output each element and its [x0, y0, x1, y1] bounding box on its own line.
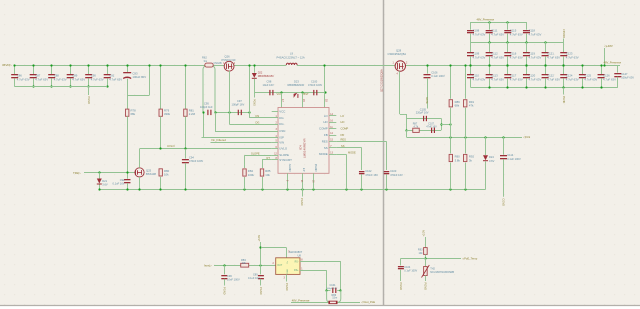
svg-text:C101: C101: [330, 284, 337, 287]
svg-text:4.7uF 63V: 4.7uF 63V: [35, 77, 48, 81]
svg-text:Q26: Q26: [225, 54, 231, 58]
svg-text:3m: 3m: [204, 59, 208, 63]
svg-text:220pF 16V: 220pF 16V: [416, 111, 429, 115]
svg-text:P4SAC0.223NLT ~ 12A: P4SAC0.223NLT ~ 12A: [277, 55, 305, 59]
svg-text:C100: C100: [311, 79, 318, 83]
svg-text:RS-: RS-: [295, 261, 299, 263]
svg-text:48V_Presense: 48V_Presense: [604, 60, 622, 64]
svg-text:C106: C106: [431, 70, 438, 74]
svg-text:10nF 100V: 10nF 100V: [227, 278, 240, 282]
svg-text:10uF 16V: 10uF 16V: [263, 83, 275, 87]
diode D23 RB068MM100: [294, 93, 298, 98]
wire Q28 gate: [399, 71, 401, 114]
svg-text:ISP: ISP: [279, 136, 284, 140]
wire main ground bus: [99, 189, 485, 191]
svg-text:DG: DG: [279, 116, 284, 120]
svg-text:3.6V: 3.6V: [102, 183, 108, 187]
wire sense run: [215, 112, 249, 114]
svg-text:RB068MM100: RB068MM100: [288, 83, 305, 87]
svg-text:4.7uF 63V: 4.7uF 63V: [566, 77, 579, 81]
wire +3.3V down: [260, 242, 262, 265]
svg-text:SLOPE: SLOPE: [251, 151, 260, 155]
zener D24 3.6V: [485, 137, 487, 155]
resistor R85 10k: [260, 169, 263, 176]
transistor Q25 BSS138: [135, 168, 144, 177]
wire DS branch: [249, 65, 251, 112]
svg-text:470nF 16V: 470nF 16V: [365, 173, 378, 177]
wire Q26 source down: [229, 71, 231, 124]
svg-text:CGND: CGND: [502, 198, 506, 206]
wire Isns to OUT: [214, 265, 276, 267]
svg-text:47k: 47k: [469, 104, 474, 108]
svg-text:100pF 16V: 100pF 16V: [232, 103, 245, 107]
wire RES to C103: [336, 141, 386, 143]
svg-text:C95: C95: [204, 102, 209, 106]
wire UVLO net: [140, 148, 272, 150]
svg-text:L9: L9: [290, 52, 293, 56]
svg-text:FB: FB: [341, 133, 345, 137]
svg-text:4.7uF 63V: 4.7uF 63V: [473, 55, 486, 59]
svg-text:Q27 CSD19532Q5A: Q27 CSD19532Q5A: [381, 69, 384, 92]
svg-text:LO: LO: [341, 114, 344, 118]
wire U8 GND pin: [286, 274, 288, 281]
wire Vin_Filtered net: [211, 142, 272, 144]
svg-text:SS: SS: [324, 146, 328, 150]
svg-text:VIN: VIN: [279, 140, 284, 144]
capacitor C113: [489, 65, 491, 74]
wire V+ branch: [261, 247, 287, 249]
wire 36VD input bus (left of L9): [14, 65, 286, 67]
svg-text:NCU18XH103F6SRB: NCU18XH103F6SRB: [430, 271, 454, 274]
capacitor C121: [545, 42, 547, 52]
svg-text:10k: 10k: [265, 173, 270, 177]
svg-text:PGND: PGND: [253, 99, 256, 106]
wire RT branch: [262, 159, 272, 161]
capacitor C99 0.1uF 16V: [260, 265, 262, 274]
wire PoE_Temp: [425, 258, 461, 260]
svg-text:Q28: Q28: [396, 49, 402, 53]
svg-text:+3.3V: +3.3V: [423, 230, 426, 237]
capacitor C106 0.1uF 100V: [427, 65, 429, 74]
svg-text:C98: C98: [267, 79, 272, 83]
resistor R84 100k: [243, 169, 246, 176]
svg-text:◁+48V: ◁+48V: [604, 44, 613, 48]
ground PGND under EP: [302, 190, 304, 197]
svg-text:470nF 100V: 470nF 100V: [189, 159, 203, 163]
svg-text:C92: C92: [120, 178, 125, 182]
svg-text:4.7uF 63V: 4.7uF 63V: [491, 55, 504, 59]
wire +48V stub: [604, 48, 606, 65]
svg-text:C97: C97: [237, 99, 242, 103]
capacitor C109: [470, 42, 472, 52]
transistor Q26 PVN012-90: [224, 61, 234, 71]
resistor R78 68k: [127, 95, 129, 109]
svg-text:4.7uF 63V: 4.7uF 63V: [566, 55, 579, 59]
wire VCC pin vertical: [281, 93, 283, 108]
svg-text:Isns▷: Isns▷: [204, 264, 213, 268]
inductor L9 P4SAC0.223NLT: [286, 63, 297, 65]
capacitor C97 100pF 16V: [238, 110, 239, 115]
svg-text:100uF 63V: 100uF 63V: [621, 76, 634, 80]
capacitor C102 470nF 16V: [359, 171, 365, 172]
capacitor C105 220pF 16V: [406, 118, 441, 120]
svg-text:3.6V: 3.6V: [489, 159, 495, 163]
svg-text:MODE: MODE: [319, 152, 328, 156]
wire SLOPE branch: [245, 155, 272, 157]
svg-text:TRk▷: TRk▷: [73, 171, 81, 175]
capacitor C95 100pF: [207, 110, 208, 115]
svg-text:PGND: PGND: [285, 283, 289, 291]
svg-text:4.7uF 63V: 4.7uF 63V: [510, 33, 523, 37]
resistor R90 3.8k: [450, 137, 452, 154]
resistor R86 shunt: [328, 301, 337, 304]
svg-text:4.7uF 63V: 4.7uF 63V: [109, 77, 122, 81]
svg-text:4.7uF 63V: 4.7uF 63V: [547, 77, 560, 81]
svg-text:DG: DG: [256, 120, 260, 124]
svg-text:PGND: PGND: [259, 287, 263, 295]
capacitor C90: [88, 65, 90, 75]
capacitor C103 470nF 16V: [384, 171, 390, 172]
wire SW pin vertical: [324, 65, 326, 108]
svg-text:Q25: Q25: [146, 169, 152, 173]
capacitor C124: [563, 65, 565, 74]
svg-text:68k: 68k: [131, 112, 136, 116]
svg-text:PVN012-90: PVN012-90: [222, 58, 236, 62]
svg-text:100uF 80V: 100uF 80V: [132, 75, 146, 79]
svg-text:0.1uF 100V: 0.1uF 100V: [507, 157, 521, 161]
svg-text:C102: C102: [365, 169, 372, 173]
capacitor C87: [33, 65, 35, 75]
resistor R81 2.2M: [185, 65, 187, 109]
svg-text:PGND: PGND: [424, 283, 428, 291]
svg-text:4.7uF 63V: 4.7uF 63V: [473, 77, 486, 81]
capacitor C98 10uF 16V: [269, 90, 270, 95]
capacitor C93 bulk 100uF 80V: [127, 65, 129, 72]
svg-text:PGND: PGND: [300, 198, 304, 206]
capacitor C122: [545, 65, 547, 74]
svg-text:100pF 16V: 100pF 16V: [327, 288, 338, 290]
wire RS- net: [300, 261, 341, 263]
svg-text:330k: 330k: [164, 112, 171, 116]
svg-text:OUT: OUT: [277, 264, 283, 267]
wire C93 jog to bus: [149, 65, 151, 95]
sheet bottom border: [0, 305, 640, 307]
svg-text:470nF 100V: 470nF 100V: [308, 83, 322, 87]
ground CPGND: [563, 39, 565, 43]
capacitor C125: [582, 65, 584, 74]
svg-text:◁Vout_PoE: ◁Vout_PoE: [361, 300, 375, 304]
wire kelvin left vertical: [203, 112, 205, 137]
svg-text:PGND: PGND: [314, 164, 318, 172]
capacitor C91: [107, 65, 109, 75]
capacitor C94 470nF 100V: [185, 149, 187, 159]
wire left cap bank bottom bus: [15, 86, 108, 88]
capacitor C92 0.1uF 16V: [124, 179, 131, 180]
transistor Q28 CSD19532Q5A: [395, 61, 405, 71]
svg-text:CPGND: CPGND: [562, 29, 565, 38]
svg-text:UVLO: UVLO: [279, 147, 288, 151]
capacitor C123: [563, 42, 565, 52]
svg-text:4.7uF 63V: 4.7uF 63V: [510, 77, 523, 81]
capacitor C88: [51, 65, 53, 75]
svg-text:RB068MM150: RB068MM150: [258, 75, 275, 78]
svg-text:2.2M: 2.2M: [189, 112, 196, 116]
resistor R93 10k: [425, 237, 427, 248]
svg-text:MODE: MODE: [348, 150, 356, 154]
wire RS+ net: [300, 270, 327, 272]
resistor R91 47k: [465, 65, 467, 99]
svg-text:3.8k: 3.8k: [455, 158, 461, 162]
svg-text:C103: C103: [390, 169, 397, 173]
svg-text:HO: HO: [341, 120, 345, 124]
svg-text:0.1uF 16V: 0.1uF 16V: [113, 182, 125, 186]
svg-text:CSD19532Q5A: CSD19532Q5A: [388, 52, 407, 56]
resistor R80 10k: [159, 169, 162, 176]
svg-text:GATE: GATE: [425, 97, 428, 104]
svg-text:GND: GND: [287, 269, 289, 274]
svg-text:UVLO: UVLO: [167, 144, 175, 148]
svg-text:PGND: PGND: [87, 97, 91, 105]
svg-text:AGND: AGND: [288, 164, 292, 172]
wire bead kelvin left: [203, 66, 206, 112]
diode D22 RB068MM150: [254, 65, 256, 73]
wire grid row1 top bus: [471, 22, 527, 24]
svg-text:DG: DG: [279, 122, 284, 126]
capacitor C117: [507, 65, 509, 74]
svg-text:BST: BST: [304, 92, 309, 96]
svg-text:0.1uF 100V: 0.1uF 100V: [431, 74, 445, 78]
svg-text:10k: 10k: [164, 173, 169, 177]
svg-text:C114: C114: [507, 153, 514, 157]
svg-text:LM5146RGYR: LM5146RGYR: [302, 138, 306, 158]
svg-text:4.7uF 63V: 4.7uF 63V: [528, 55, 541, 59]
thermistor TH2 NCU18XH103F6SRB: [425, 258, 427, 266]
svg-text:CSN: CSN: [279, 129, 285, 133]
svg-text:4.7uF 63V: 4.7uF 63V: [510, 55, 523, 59]
svg-text:PGND: PGND: [223, 287, 227, 295]
svg-text:10k: 10k: [242, 261, 247, 265]
svg-text:RES: RES: [341, 138, 347, 142]
svg-text:48V_Presense: 48V_Presense: [292, 298, 310, 302]
capacitor C115: [507, 22, 509, 30]
svg-text:SYNC/RT: SYNC/RT: [279, 158, 292, 162]
svg-text:FB: FB: [324, 133, 328, 137]
capacitor C89: [70, 65, 72, 75]
ground PGND left cap bank: [88, 87, 90, 95]
svg-text:PGND: PGND: [562, 96, 565, 103]
svg-text:68k: 68k: [455, 104, 460, 108]
capacitor C118: [526, 22, 528, 30]
capacitor C107 47nF 16V: [431, 128, 432, 133]
wire 48V_Presense bottom: [291, 302, 360, 304]
svg-text:+3.3V: +3.3V: [258, 235, 261, 242]
wire MODE to gnd: [336, 154, 346, 156]
svg-text:RT: RT: [267, 156, 271, 160]
capacitor C126: [601, 65, 603, 74]
svg-text:D21: D21: [102, 179, 107, 183]
wire grid row1 bottom bus: [471, 42, 564, 44]
op-amp U1 controller IC4 LM5146RGYR: [278, 108, 329, 174]
resistor R89 68k: [450, 65, 452, 99]
wire bead kelvin right: [213, 66, 216, 112]
svg-text:0.1uF 100V: 0.1uF 100V: [404, 269, 417, 272]
wire BST pin vertical: [302, 93, 304, 108]
svg-text:4.7uF 63V: 4.7uF 63V: [72, 77, 85, 81]
svg-text:4.7uF 63V: 4.7uF 63V: [491, 33, 504, 37]
svg-text:C96: C96: [227, 274, 232, 278]
svg-text:C127: C127: [621, 72, 628, 76]
svg-text:C99: C99: [253, 274, 258, 277]
wire to C104: [401, 258, 426, 260]
svg-text:EP: EP: [302, 168, 306, 172]
svg-text:4.7uF 63V: 4.7uF 63V: [473, 33, 486, 37]
resistor R83 10k: [241, 263, 249, 267]
capacitor C119: [526, 42, 528, 52]
capacitor C86: [14, 65, 16, 75]
wire grid bottom bus: [471, 87, 618, 89]
wire FB divider net: [406, 137, 522, 139]
svg-text:470nF 16V: 470nF 16V: [390, 173, 403, 177]
svg-text:OSCdB: OSCdB: [214, 62, 223, 65]
svg-text:RES: RES: [322, 139, 328, 143]
capacitor C112: [489, 42, 491, 52]
ground PGND grid: [563, 87, 565, 94]
svg-text:0.1uF 16V: 0.1uF 16V: [248, 277, 260, 280]
svg-text:C94: C94: [189, 156, 194, 160]
svg-text:COMP: COMP: [319, 127, 328, 131]
svg-text:RS+: RS+: [294, 270, 299, 272]
capacitor C127 100uF 63V: [617, 65, 619, 73]
capacitor C114 0.1uF 100V: [503, 137, 505, 155]
capacitor C116: [507, 42, 509, 52]
capacitor C96 10nF 100V: [224, 265, 226, 274]
svg-text:47nF 16V: 47nF 16V: [426, 125, 437, 128]
svg-text:4.7uF 63V: 4.7uF 63V: [91, 77, 104, 81]
wire SS to C102: [336, 147, 361, 149]
svg-text:4.7uF 63V: 4.7uF 63V: [603, 77, 616, 81]
capacitor C120: [526, 65, 528, 74]
svg-text:4.7uF 63V: 4.7uF 63V: [54, 77, 67, 81]
svg-text:BSS138: BSS138: [146, 172, 156, 176]
svg-text:Vin_Filtered: Vin_Filtered: [211, 138, 226, 142]
svg-text:D23: D23: [294, 79, 299, 83]
svg-text:100pF 1k0: 100pF 1k0: [200, 105, 213, 109]
wire TRk to Q25 gate: [84, 172, 135, 174]
svg-text:4.7uF 63V: 4.7uF 63V: [547, 55, 560, 59]
svg-text:100k: 100k: [248, 173, 255, 177]
capacitor C101 100pF 16V: [327, 290, 331, 292]
svg-text:4.7uF 63V: 4.7uF 63V: [584, 77, 597, 81]
svg-text:HO: HO: [323, 120, 328, 124]
svg-text:U8: U8: [298, 253, 302, 257]
op-amp U8 MAX4080T current monitor: [276, 258, 300, 275]
svg-text:SLOPE: SLOPE: [279, 153, 289, 157]
svg-text:◁Vtrk: ◁Vtrk: [523, 135, 531, 139]
capacitor C100 470nF 100V: [313, 90, 314, 95]
zener D21 3.6V: [99, 172, 101, 178]
svg-text:4.7uF 63V: 4.7uF 63V: [528, 77, 541, 81]
resistor R79 330k: [160, 65, 162, 109]
svg-text:15m: 15m: [332, 297, 337, 300]
svg-text:4.7uF 63V: 4.7uF 63V: [528, 33, 541, 37]
capacitor C110: [470, 65, 472, 74]
svg-text:◁PoE_Temp: ◁PoE_Temp: [462, 256, 478, 260]
svg-text:36VD▷: 36VD▷: [2, 63, 13, 67]
wire RS arcs to shunt: [327, 290, 331, 302]
capacitor C95 plates2: [210, 110, 211, 115]
wire comp to divider top: [441, 118, 443, 130]
sheet divider line: [383, 0, 385, 306]
svg-text:VCC: VCC: [279, 110, 285, 114]
svg-text:48V_Presense: 48V_Presense: [477, 17, 495, 21]
svg-text:4.7uF 63V: 4.7uF 63V: [17, 77, 30, 81]
svg-text:D24: D24: [489, 155, 494, 159]
capacitor C104 0.1uF 100V: [398, 266, 404, 267]
wire CSN branch: [215, 112, 217, 131]
resistor R62 3m bead: [205, 63, 213, 67]
ground PGND sense: [254, 93, 256, 98]
capacitor C111: [489, 22, 491, 30]
svg-text:4.7k: 4.7k: [414, 125, 419, 128]
svg-text:4.7uF 63V: 4.7uF 63V: [491, 77, 504, 81]
svg-text:COMP: COMP: [341, 127, 349, 131]
wire VCC BST rail: [254, 92, 325, 94]
resistor R92 3k: [465, 137, 467, 154]
capacitor C108: [470, 22, 472, 30]
wire 48V bus (right of L9): [297, 65, 620, 67]
svg-text:PGND: PGND: [399, 283, 403, 291]
resistor R87 4.7k: [406, 130, 441, 132]
svg-text:SS: SS: [341, 144, 345, 148]
